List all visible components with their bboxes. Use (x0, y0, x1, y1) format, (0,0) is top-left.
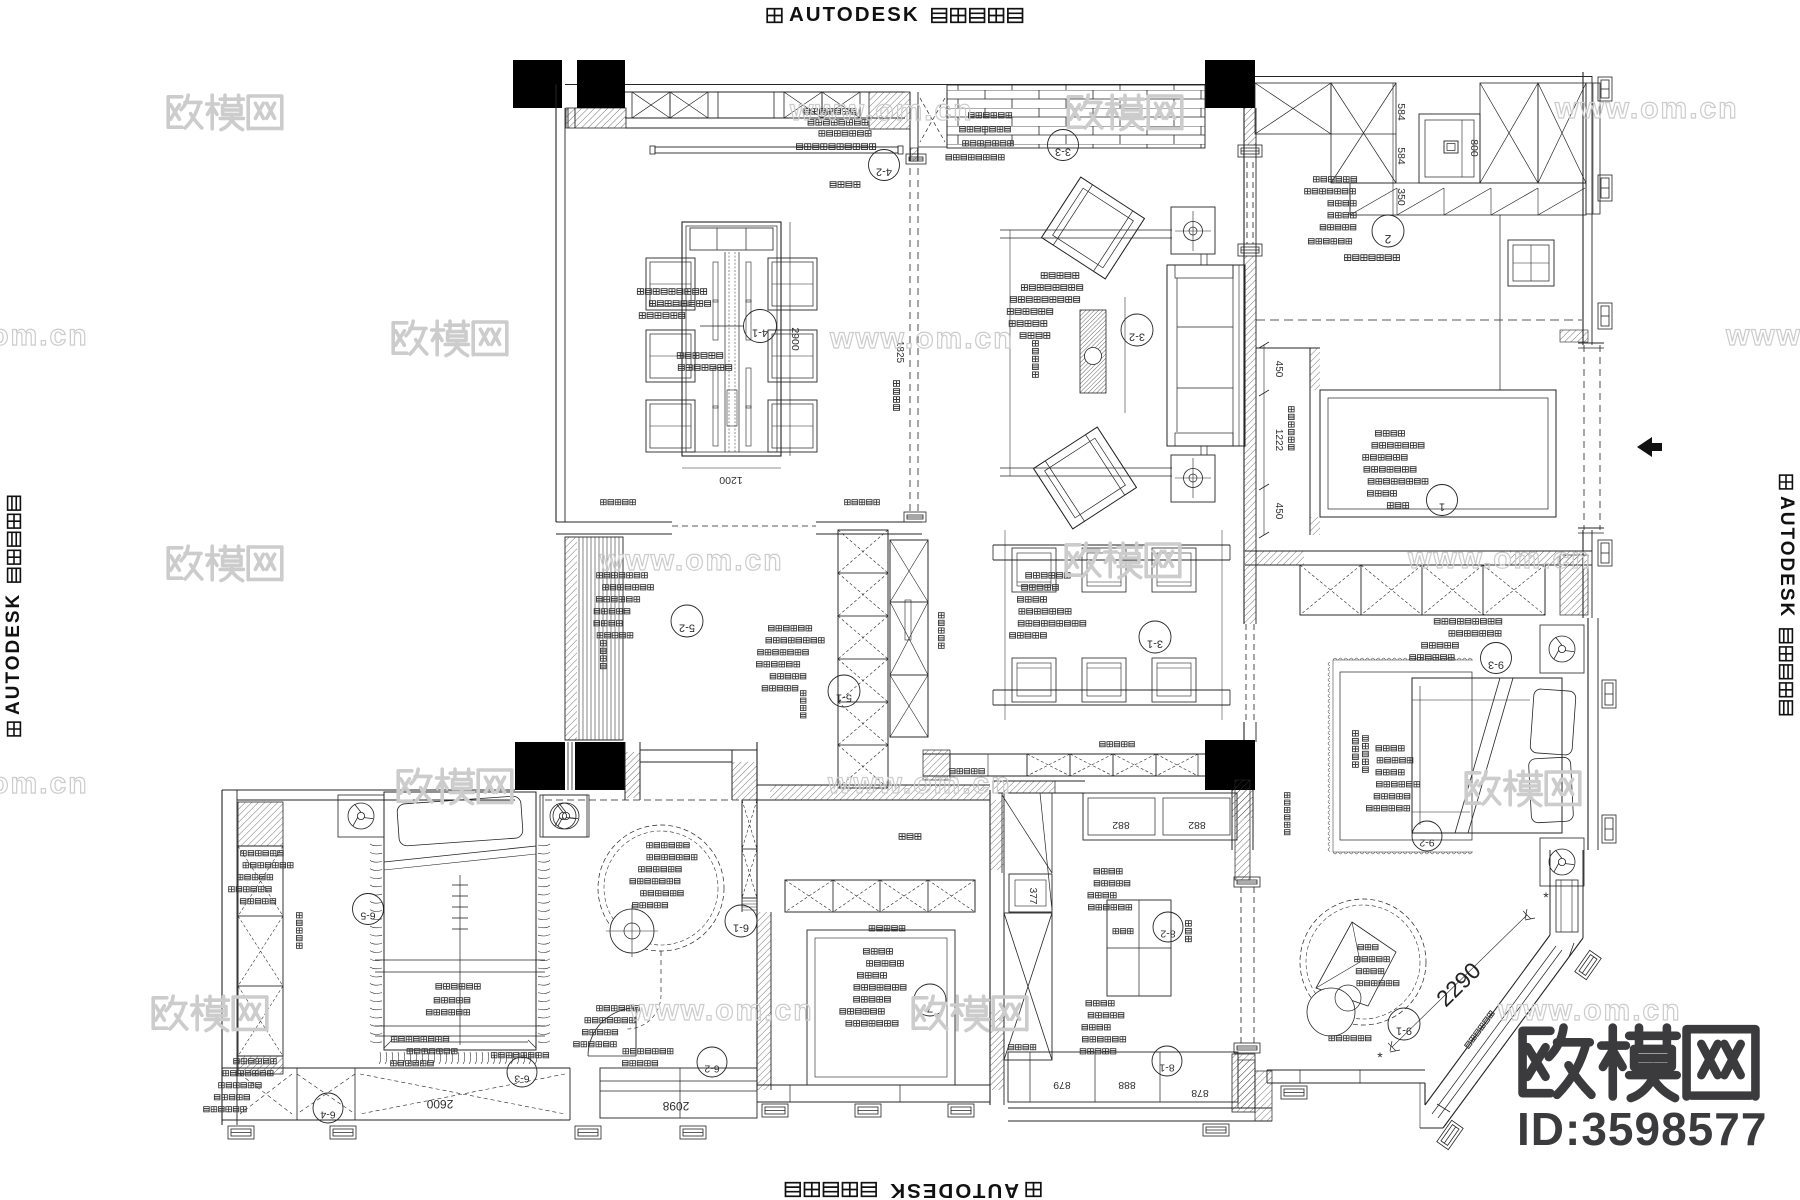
wall: living room right wall (x1244-1258) (1243, 108, 1245, 624)
text: dining deco cabinet note (fake) (1100, 742, 1135, 747)
svg-text:www.om.cn: www.om.cn (1407, 542, 1592, 575)
svg-text:888: 888 (1118, 1079, 1136, 1091)
column: black square mid-right (1205, 740, 1255, 790)
stamp: left AUTODESK (rotated -90) (3, 496, 24, 736)
stamp: right AUTODESK (rotated 90) (1776, 475, 1797, 715)
cabinet: 5-1 column A (x838-888) (838, 530, 888, 788)
label: detail circle 5-1 (828, 675, 860, 707)
door arc: BL bedroom door (588, 1008, 636, 1056)
wall: top outer line (565, 84, 1207, 86)
svg-text:4-2: 4-2 (876, 166, 892, 178)
wall: room7 right wall (989, 790, 991, 1105)
svg-text:584: 584 (1395, 103, 1407, 121)
dim: 584 584 350 column (1392, 83, 1394, 215)
dashline: rug to door (660, 951, 662, 995)
north arrow (filled) (1637, 437, 1652, 457)
text: dining spec block (fake) (637, 289, 706, 295)
svg-text:9-3: 9-3 (1488, 659, 1504, 671)
svg-text:4-1: 4-1 (752, 327, 768, 339)
text: 3-1 notes (fake) (1026, 573, 1070, 578)
svg-text:584: 584 (1395, 147, 1407, 165)
cabinet: 5-1 column B big X (x890-928) (890, 540, 928, 737)
text: 6-2 notes (fake) (623, 1049, 673, 1054)
svg-text:9-2: 9-2 (1419, 837, 1434, 849)
bedroom BL: top wall (222, 789, 515, 791)
window marks right wall top (1598, 77, 1612, 101)
shower: square fixture 800 (1419, 114, 1480, 183)
text: window note right (fake) (845, 500, 880, 505)
label: detail circle 4-2 (869, 150, 900, 181)
furniture: dining chairs left column (646, 258, 695, 310)
svg-text:882: 882 (1188, 819, 1206, 831)
watermark: oumo glyphs (168, 95, 282, 129)
text: entry cabinet display label (fake) (869, 926, 905, 931)
svg-text:www.om.cn: www.om.cn (629, 994, 814, 1027)
room 3-1: dining table rails (993, 544, 1230, 546)
cabinet: 882 row (closet top) (1083, 793, 1237, 840)
closet: island (8-2) (1107, 900, 1171, 996)
blanket kite shape in rug (1316, 922, 1396, 1006)
furniture: master bed (1412, 678, 1562, 833)
opening: dashed gap dining bottom (672, 525, 816, 527)
svg-text:AUTODESK: AUTODESK (789, 3, 920, 26)
text: 8-area notes lower (fake) (1086, 1001, 1114, 1006)
wall: divider above room1 (1256, 347, 1320, 349)
wall: seg between squares and 5-2 (624, 742, 626, 800)
text: master bedroom notes top (fake) (1434, 619, 1501, 624)
column: black square top-3 (right of brick wall) (1205, 60, 1255, 108)
wall: dining room bottom wall segments (556, 521, 672, 523)
text: product experience notes (fake) (768, 626, 811, 631)
svg-text:2098: 2098 (662, 1099, 689, 1113)
svg-text:350: 350 (1395, 188, 1407, 206)
column: black square top-2 (577, 60, 625, 108)
fan: floor fan in rug 6-1 (610, 909, 654, 953)
wall: mid-left black squares (515, 742, 565, 790)
text: living room spec block (fake) (1041, 273, 1079, 279)
dim: 800 vertical (1461, 120, 1463, 177)
wall: hatched block bottom corridor (1232, 1054, 1255, 1112)
wall: top-right block right wall (1582, 72, 1584, 345)
text: master bed zone (fake) (1352, 731, 1358, 768)
text: tatami zone notes (fake) (1313, 177, 1356, 182)
fan: master bedroom lower (1540, 838, 1584, 886)
cabinet: bottom row 879/888/878 (1008, 1052, 1238, 1102)
svg-text:6-5: 6-5 (360, 910, 375, 922)
wall: corridor wall left of master (x1232-1254) (1231, 790, 1233, 850)
label: detail circle 6-3 (507, 1057, 537, 1087)
closet: top-right wardrobe cells (1255, 83, 1331, 134)
svg-text:1222: 1222 (1273, 429, 1284, 452)
svg-text:2: 2 (1384, 232, 1391, 246)
svg-text:AUTODESK: AUTODESK (3, 593, 24, 715)
guide lines living text (1009, 230, 1011, 476)
furniture: dining chairs right column (768, 258, 817, 310)
furniture: master rug with fringe (1340, 672, 1472, 840)
svg-text:6-3: 6-3 (514, 1073, 529, 1085)
text: closet room vertical label (fake) (1185, 921, 1191, 942)
watermark: oumo glyphs (153, 996, 267, 1030)
label: detail circle 9-1 (1388, 1008, 1420, 1040)
text: bay window zone label (fake, rotated) (1465, 1011, 1495, 1049)
living room rails upper (1000, 229, 1172, 231)
cabinet: corridor X column (742, 800, 757, 898)
svg-text:www.om.cn: www.om.cn (599, 544, 784, 577)
text: room1 notes (fake) (1375, 431, 1404, 436)
text: tv cabinet vertical note (fake) (1284, 793, 1290, 835)
label: detail circle 9-2 (1412, 821, 1442, 851)
dim: 1200 below table (682, 467, 781, 469)
wall: hatched left wall of room1 zone (1309, 348, 1311, 535)
svg-text:800: 800 (1468, 139, 1480, 157)
wall: mid horizontal wall y550-565 right block (1245, 550, 1592, 552)
BL rug fringes bottom (379, 1052, 381, 1064)
label: detail circle 3-2 (1121, 314, 1153, 346)
master bed blanket fold (1455, 678, 1500, 833)
wall: top band inner lines (625, 91, 905, 93)
svg-text:3-2: 3-2 (1129, 331, 1145, 343)
stamp: top AUTODESK (767, 3, 1022, 26)
text: rug 6-1 notes (fake) (647, 843, 690, 848)
bay window: diagonal wall SE corner (1425, 935, 1583, 1128)
dining table side slats (713, 262, 718, 302)
label: detail circle 3-3 (1048, 130, 1079, 161)
label: detail circle 3-1 (1139, 621, 1171, 653)
svg-text:5-2: 5-2 (679, 622, 695, 634)
text: BL left notes (fake) (241, 851, 284, 856)
svg-text:*: * (1377, 1049, 1383, 1065)
stamp: bottom AUTODESK (rotated 180) (785, 1179, 1040, 1200)
watermark: oumo glyphs (168, 546, 282, 580)
label: detail circle 8-1 (1152, 1046, 1182, 1076)
label: detail circle 8-2 (1153, 912, 1183, 942)
opening: dashed corridor master (1240, 887, 1242, 1043)
label: detail circle 6-4 (313, 1093, 343, 1123)
fan: corridor near bedroom door (540, 795, 587, 837)
furniture: sofa end table upper with lamp (1171, 207, 1215, 254)
svg-text:8-2: 8-2 (1160, 928, 1175, 940)
wall hatch right wall at y330 (1560, 330, 1588, 342)
svg-text:1: 1 (1439, 501, 1445, 513)
cabinet: 6-2 row 2098 (600, 1068, 757, 1118)
bay window sills rotated (1575, 950, 1601, 979)
wall: right wall resumes y530-615 (1582, 530, 1584, 618)
furniture: round rug 9-1 (master) (1300, 899, 1426, 1025)
cabinet row with X: corridor top (1027, 754, 1070, 776)
svg-text:www.om.cn: www.om.cn (829, 322, 1014, 355)
furniture: BL bed (384, 792, 536, 1050)
svg-text:878: 878 (1191, 1087, 1209, 1099)
dashline: tatami area boundary (1256, 319, 1582, 321)
opening: dashed divider dining/living x=912 (909, 168, 911, 512)
dining table runner (724, 252, 726, 452)
fan: master bedroom upper (1540, 625, 1584, 673)
furniture: sofa (3-seater) (1167, 265, 1245, 446)
text: corridor store label (fake) (899, 834, 921, 840)
watermark: oumo glyphs (1068, 95, 1182, 129)
svg-text:450: 450 (1273, 361, 1284, 378)
wall: 5-2 bottom / corridor (640, 749, 757, 751)
wall: band above closet 8-2 (993, 780, 1085, 782)
svg-text:882: 882 (1112, 819, 1130, 831)
master bed pillows (1528, 689, 1576, 823)
watermark: oumo glyphs (398, 769, 512, 803)
text: 5-2 notes (fake) (597, 573, 648, 578)
label: detail circle 1 (1427, 485, 1458, 516)
fan: bedroom BL left (338, 795, 384, 837)
svg-text:www.om.cn: www.om.cn (0, 767, 89, 800)
label: detail circle 6-1 (725, 905, 757, 937)
BL rug fringes left (370, 844, 382, 846)
opening: dashed door living right wall (1245, 624, 1247, 722)
text: wardrobe vertical label (fake) (296, 913, 302, 949)
svg-text:www.om.cn: www.om.cn (1725, 319, 1800, 352)
svg-text:6-1: 6-1 (733, 922, 749, 934)
text: concealed sliding door (fake) (950, 769, 985, 774)
svg-text:2600: 2600 (426, 1097, 453, 1111)
room: entry display room 1 rect (1320, 390, 1556, 517)
BL rug fringes right (538, 844, 550, 846)
furniture: dining table (682, 222, 781, 456)
furniture: tatami bench seat (1508, 240, 1554, 286)
svg-text:www.om.cn: www.om.cn (0, 319, 89, 352)
projector screen bar (655, 147, 898, 153)
svg-text:3-3: 3-3 (1055, 146, 1071, 158)
svg-text:377: 377 (1027, 888, 1038, 905)
sills below 8 row (1203, 1124, 1229, 1136)
room 8: wall chunk with 377 (1009, 874, 1052, 912)
wall: top-right block top line (1255, 76, 1592, 78)
label: detail circle 5-2 (671, 605, 703, 637)
watermark: oumo glyphs (913, 996, 1027, 1030)
room 8: corner diagonals (1002, 795, 1052, 873)
text: BL bottom notes (fake) (391, 1037, 448, 1042)
svg-text:AUTODESK: AUTODESK (1776, 496, 1797, 618)
svg-text:6-4: 6-4 (320, 1109, 335, 1121)
opening: dashed balcony right side (1583, 345, 1585, 530)
text: notes left of door (fake) (597, 1006, 640, 1011)
svg-text:www.om.cn: www.om.cn (1497, 994, 1682, 1027)
label: detail circle 2 (1372, 215, 1404, 247)
closet: master bedroom wardrobe band (1300, 565, 1545, 615)
room 5-2: left slat window (565, 537, 623, 740)
text: projector note block (fake) (804, 109, 856, 114)
dim: 2290 diagonal (1392, 915, 1527, 1047)
svg-text:879: 879 (1053, 1079, 1071, 1091)
wall: dining room left wall (555, 85, 557, 523)
label: detail circle 4-1 (744, 310, 777, 343)
dim: 2900 right of table (789, 222, 791, 456)
svg-text:www.om.cn: www.om.cn (1554, 92, 1739, 125)
wall: hatched right of 882 row (1235, 780, 1250, 880)
wall hatch: top wall connector at x869 (869, 92, 910, 129)
watermark: oumo glyphs (1466, 771, 1580, 805)
label: detail circle 6-5 (353, 894, 384, 925)
svg-text:450: 450 (1273, 503, 1284, 520)
wall: room7 hatched left wall (757, 912, 771, 1090)
wall: room7 bottom wall (757, 1084, 990, 1086)
watermark: oumo glyphs (393, 321, 507, 355)
window boxes: top wall X-cells (632, 92, 670, 118)
wall: master bedroom right wall (1587, 618, 1589, 850)
label: detail circle 6-2 (697, 1047, 727, 1077)
label: detail circle 9-3 (1481, 643, 1512, 674)
wall: corridor band right of squares y754-776 (923, 753, 1205, 755)
text: 8-area notes upper (fake) (1094, 869, 1122, 874)
text: wardrobe display vertical (fake) (600, 641, 606, 669)
BL bed blanket diagonal (384, 846, 536, 862)
svg-text:1200: 1200 (719, 474, 743, 486)
opening: dashed X window left of brick wall (917, 92, 919, 148)
guide tick lines 3-1 (1004, 530, 1006, 720)
furniture: 3-1 chairs bottom row (1012, 658, 1056, 702)
wall hatch: under top-left columns (566, 108, 626, 128)
text: window note left (fake) (601, 500, 636, 505)
label: detail circle 7 (914, 984, 946, 1016)
closet: big X wardrobe left (8-2) (1004, 913, 1052, 1060)
svg-text:www.om.cn: www.om.cn (789, 94, 974, 127)
text: room7 notes (fake) (863, 949, 892, 954)
BL bed pillow (397, 796, 524, 847)
BL rug band lines (375, 959, 545, 961)
furniture: living armchair upper (rotated) (1042, 177, 1145, 279)
text: tatami zone title (fake) (1345, 255, 1400, 261)
furniture: sofa end table lower with lamp (1171, 455, 1215, 502)
sills: BL bottom (228, 1126, 254, 1139)
wall: brick feature wall (living room) (947, 85, 1205, 148)
svg-text:8-1: 8-1 (1159, 1062, 1174, 1074)
cabinet: entry display row (785, 880, 975, 912)
room 7: inner display rect (807, 930, 955, 1085)
furniture: round rug 6-1 (598, 825, 724, 951)
svg-text:www.om.cn: www.om.cn (827, 767, 1012, 800)
bedroom BL: wardrobe hatched column (238, 802, 283, 846)
svg-text:ID:3598577: ID:3598577 (1517, 1103, 1767, 1155)
beanbag circles in rug (1307, 988, 1355, 1036)
wall: corridor top y785-800 horizontal (757, 784, 990, 786)
text: BL rug labels (fake) (436, 984, 480, 989)
svg-text:AUTODESK: AUTODESK (888, 1179, 1019, 1200)
dining table head cells (690, 228, 773, 250)
svg-text:5-1: 5-1 (836, 692, 852, 704)
furniture: 3-1 chairs top row (1012, 548, 1056, 592)
svg-text:3-1: 3-1 (1147, 638, 1163, 650)
watermark: oumo glyphs (1066, 543, 1180, 577)
text: dining deco cabinet vertical (fake) (938, 613, 944, 649)
wall: corridor vertical x732-757 (731, 750, 733, 800)
text: rug notes (fake) (1358, 945, 1378, 950)
dim: 450/1222/450 column (right block) (1263, 345, 1265, 535)
fan: bedroom BL right (543, 795, 589, 837)
svg-text:6-2: 6-2 (704, 1063, 719, 1075)
text: entry cabinet display vertical (fake) (1288, 407, 1294, 450)
closet: lower serrated row (1350, 183, 1586, 215)
living room rails lower (1000, 467, 1172, 469)
wall: master bottom wall (1267, 1069, 1425, 1071)
text: brick wall notes (fake) (968, 113, 1011, 118)
wall: master right wall lower segment (1549, 850, 1551, 935)
wall: dining/living divider upper stub (909, 92, 911, 161)
svg-text:2900: 2900 (789, 327, 801, 351)
furniture: rug hatched (living) (1080, 310, 1106, 393)
line: inner partition top-right (1499, 215, 1501, 390)
bedroom BL: bottom window band (222, 1067, 570, 1069)
column: black square top-1 (513, 60, 562, 108)
svg-text:*: * (1543, 889, 1549, 905)
logo: oumowang brand bottom-right (1523, 1028, 1756, 1099)
dashline: corridor bottom 5-2 (545, 799, 757, 801)
bedroom BL: left outer wall (221, 790, 223, 1125)
furniture: living armchair lower (rotated) (1034, 427, 1137, 529)
